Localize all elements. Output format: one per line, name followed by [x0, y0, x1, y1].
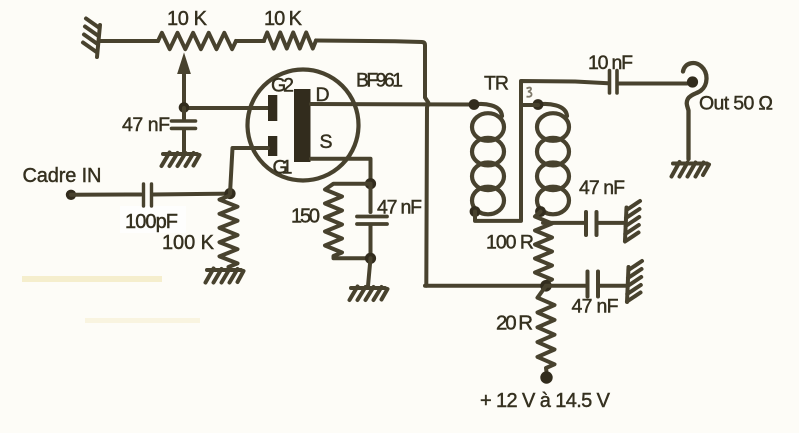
svg-text:100 K: 100 K [162, 232, 215, 254]
potentiometer wiper arrow [182, 68, 186, 107]
wire wiper node to gate G2 [184, 106, 268, 110]
wire R1 to R2 [236, 39, 264, 43]
ground at C3 [625, 201, 640, 242]
svg-text:+ 12 V à 14.5 V: + 12 V à 14.5 V [480, 390, 611, 412]
svg-text:G1: G1 [273, 157, 293, 179]
svg-text:10 nF: 10 nF [588, 52, 633, 74]
resistor R5 100K [220, 196, 238, 267]
svg-text:10 K: 10 K [167, 8, 208, 30]
winding sense mark [527, 88, 532, 97]
svg-text:47 nF: 47 nF [579, 177, 625, 199]
node G2 junction [179, 102, 190, 113]
svg-text:100 R: 100 R [486, 232, 534, 254]
wire R2 to corner, down past drain node to bottom rail [316, 41, 428, 286]
node TR primary bottom [470, 206, 481, 217]
ground below C1 [162, 153, 200, 167]
svg-text:TR: TR [484, 73, 509, 95]
node TR secondary top [533, 99, 544, 110]
transformer TR secondary winding [537, 104, 569, 214]
node source network bottom [365, 253, 376, 264]
capacitor C6 47 nF (source bypass) [357, 184, 387, 258]
ground below R5 [206, 269, 244, 283]
potentiometer R1 10K [158, 33, 236, 49]
wire drain D to node and TR primary [311, 102, 474, 107]
wire TR primary bottom to output riser [475, 81, 608, 221]
node bottom rail junction [540, 280, 552, 292]
svg-text:150: 150 [291, 206, 320, 228]
wire source S to bias network [311, 159, 371, 184]
capacitor C3 47 nF (secondary bypass) [543, 212, 624, 235]
resistor R2 10K [264, 33, 316, 49]
svg-text:Out 50 Ω: Out 50 Ω [699, 93, 773, 115]
wire to ground below source network [368, 258, 371, 286]
wire TR secondary top stub [521, 103, 538, 107]
terminal +12V [540, 371, 552, 383]
capacitor C2 10 nF (output coupling) [610, 71, 688, 94]
ground at output [672, 162, 710, 177]
svg-text:47 nF: 47 nF [572, 296, 619, 318]
resistor R4 20R [538, 286, 555, 372]
svg-text:10 K: 10 K [264, 8, 303, 30]
node TR primary top [469, 99, 480, 110]
svg-text:47 nF: 47 nF [122, 114, 170, 136]
capacitor C5 100pF [120, 206, 186, 233]
capacitor C4 47 nF (rail bypass) [546, 272, 626, 297]
output connector (coax hook) [683, 63, 707, 159]
wire bottom rail [425, 284, 546, 288]
node output terminal [687, 76, 698, 87]
svg-text:100pF: 100pF [125, 211, 178, 233]
transformer TR primary winding [472, 104, 504, 214]
svg-text:S: S [320, 131, 333, 153]
wire node up to gate G1 [230, 148, 268, 194]
ground below source network [350, 287, 388, 301]
resistor R6 150 [325, 184, 371, 259]
node TR secondary bottom [535, 206, 546, 217]
ground (top left, at R1) [83, 19, 100, 58]
node G1 junction [224, 188, 235, 199]
wire ground to R1 [99, 39, 158, 43]
svg-text:G2: G2 [271, 75, 294, 97]
transistor Q1 BF961 (dual-gate MOSFET) [248, 70, 359, 181]
ground at C4 [627, 261, 642, 302]
svg-text:BF961: BF961 [356, 70, 403, 92]
svg-text:47 nF: 47 nF [377, 197, 422, 219]
wire input to C5 [71, 193, 141, 197]
svg-text:Cadre IN: Cadre IN [23, 165, 102, 187]
capacitor C1 47nF (G2 decoupling) [172, 108, 196, 152]
resistor R3 100R [535, 212, 552, 286]
svg-text:20 R: 20 R [496, 312, 533, 335]
input terminal (Cadre IN) [66, 190, 76, 200]
node source network top [365, 178, 376, 189]
